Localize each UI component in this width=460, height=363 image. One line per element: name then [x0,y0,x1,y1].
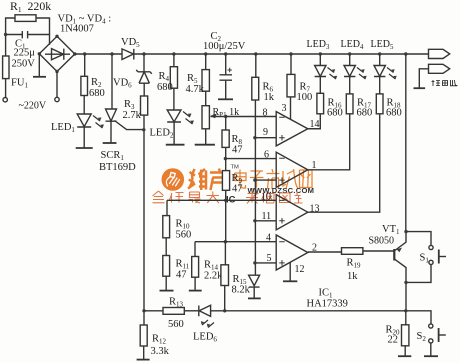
node R20 junction [404,309,407,312]
node pin6 junction [224,157,227,160]
wire C2 top lead [225,54,227,75]
svg-text:4: 4 [266,233,271,244]
svg-text:LED2: LED2 [150,128,174,140]
resistor R18 [376,94,383,114]
svg-text:R1 220k: R1 220k [10,0,51,14]
resistor R5 [202,70,209,92]
node LED3 column [319,52,322,55]
wire bottom bus right segment [225,311,431,324]
wire R4 top lead [173,54,175,67]
resistor R10 [163,216,170,238]
resistor R17 [346,94,353,114]
ground R11 [160,290,174,292]
wire R4 to LED2 [173,88,175,110]
svg-text:VT1: VT1 [382,224,400,236]
wire R16 to out14 [308,114,321,129]
LED D5 arrows [387,68,396,80]
diode VD7 reference clamp [249,275,260,298]
wire R14 top lead [194,242,196,257]
resistor R12 [140,325,147,346]
wire bridge AC bottom to terminal [56,72,58,98]
svg-text:560: 560 [176,230,192,241]
wire R8 top lead [225,117,227,131]
switch S2 [429,324,433,328]
wire R9 bottom [225,190,227,241]
op-amp U1b [276,152,308,187]
wire R17 to out1 [308,114,350,170]
resistor R14 [192,257,199,278]
wire R14 to ground [194,277,196,290]
svg-text:2.7k: 2.7k [123,110,142,121]
wire pin10 line [167,199,276,201]
svg-text:R13: R13 [169,297,184,309]
U1c minus plus [279,200,285,223]
wire VD6 cathode lead [143,54,145,72]
svg-text:250V: 250V [12,59,36,70]
svg-text:1k: 1k [347,271,358,282]
svg-text:S8050: S8050 [369,236,395,247]
LED D6 arrows [202,320,214,328]
U1b minus plus [279,158,285,183]
svg-text:6: 6 [264,150,269,161]
svg-text:680: 680 [386,108,402,119]
svg-text:560: 560 [168,319,184,330]
RP1 wiper arrow [210,114,217,119]
resistor R19 [342,248,363,255]
wire emitter to bottom bus [405,282,407,310]
wire top bus main segment [134,53,429,55]
wire pin11 line [255,220,276,222]
svg-text:S1: S1 [420,253,430,265]
node collector junction [404,230,407,233]
wire battery minus to ground [419,69,428,88]
svg-text:HA17339: HA17339 [307,299,348,310]
battery minus connector [429,64,450,73]
resistor R8 [222,130,229,147]
resistor R3 [141,96,148,115]
wire R18 to out13 [308,114,380,212]
svg-text:11: 11 [262,211,272,222]
LED D1 arrows [93,116,103,129]
wire bottom bus left segment [144,310,163,312]
node pin4 junction [224,240,227,243]
node SCR column [110,52,113,55]
svg-text:VD5: VD5 [121,37,140,49]
resistor R4 [170,67,177,89]
svg-text:8: 8 [263,108,268,119]
battery plus connector [429,49,450,58]
resistor R6 [252,77,259,100]
svg-text:LED4: LED4 [341,39,364,51]
svg-text:22: 22 [388,335,399,346]
node gate rail to bottom bus [142,309,145,312]
big brand char wei [188,169,207,190]
svg-text:680: 680 [357,108,373,119]
wire bridge minus to ground [38,54,40,77]
terminal circle AC live [3,98,7,102]
resistor R7 [287,74,295,97]
svg-text:LED5: LED5 [371,39,394,51]
LED D4 [344,66,355,94]
LED D2 arrows [183,112,193,125]
svg-text:SCR1: SCR1 [101,150,125,162]
LED D4 arrows [357,68,366,80]
ground SCR [103,142,117,144]
wire S2 bottom to ground [430,343,432,356]
wire bus R13 to LED6 [184,310,198,312]
wire R8 to R9 [225,147,227,170]
ground C2 [218,98,233,100]
wire reference rail [254,100,256,275]
svg-text:1k: 1k [264,92,275,103]
wire R20 to ground [404,346,406,356]
slogan quan qiu zui da [153,191,220,203]
svg-text:100μ/25V: 100μ/25V [203,41,246,52]
node emitter junction [404,281,407,284]
node VD6 column [142,52,145,55]
svg-text:LED3: LED3 [307,39,330,51]
resistor R2 [81,76,88,95]
wire LED4 top lead [349,54,351,66]
svg-text:TM: TM [231,165,240,171]
wire R19 to base [363,250,394,252]
wire pin12 ground lead [289,262,291,281]
wire R10 top lead [166,200,168,215]
slogan cai gou wang zhan [246,192,303,204]
op-amp U1c [276,195,308,230]
wire pin7 line [255,179,276,181]
LED D6 [199,305,225,316]
node LED4 column [348,52,351,55]
svg-text:47: 47 [232,184,243,195]
svg-text:9: 9 [263,127,268,138]
svg-text:BT169D: BT169D [99,162,136,173]
wire R12 top lead [143,311,145,325]
node R7 column [289,52,292,55]
wire R3 to gate node rail [143,115,145,311]
node R6 column [254,52,257,55]
U1d minus plus [279,242,285,266]
svg-text:FU1: FU1 [11,78,28,90]
ground pin12 [283,280,297,282]
wire FU1 to terminal [5,79,7,98]
svg-text:S2: S2 [417,331,427,343]
wire R5 to RP1 [205,91,207,106]
node R4 column [172,52,175,55]
svg-text:8.2k: 8.2k [232,285,251,296]
potentiometer RP1 [202,106,209,129]
svg-text:4.7k: 4.7k [186,84,205,95]
wire S1 bottom to emitter [406,265,431,283]
svg-text:VD6: VD6 [113,78,132,90]
node wiper R8 junction [224,115,227,118]
bridge corner dots [55,35,58,38]
svg-text:10: 10 [261,192,271,203]
SCR1 gate lead [115,121,144,130]
ground LED2 [166,144,185,146]
wire R11 to ground [165,276,167,290]
resistor R15 [221,265,229,286]
resistor R13 [163,308,184,315]
capacitor C2 [220,75,233,80]
wire R6 top lead [255,54,257,77]
wire top bus left segment [75,53,122,55]
svg-text:12: 12 [295,264,305,275]
fuse FU1 [3,56,9,79]
wire R15 bottom to bus [224,286,226,311]
wire C1 leads [6,35,50,45]
wire R7 top lead [290,54,292,74]
wire out2 to R19 [308,251,342,253]
wire pin6 line [225,158,276,160]
svg-text:47: 47 [176,270,187,281]
ground VD7 [248,297,261,299]
LED D2 [167,110,181,145]
resistor R1 [15,15,36,22]
ground battery minus [414,87,426,89]
svg-text:680: 680 [157,82,173,93]
WATERMARK [153,165,315,206]
node C2 column [224,52,227,55]
wire R1 right lead [36,18,50,35]
node R15 bottom junction [223,309,226,312]
logo disc [162,168,185,191]
wire LED3 top lead [319,54,321,66]
wire C2 bottom [225,81,227,100]
VT1 emitter arrow [397,248,403,253]
node R5 column [204,52,207,55]
node LED5 column [378,52,381,55]
wire R20 top lead [405,311,407,325]
resistor R16 [317,93,324,114]
svg-text:~220V: ~220V [19,101,47,112]
node pin10 junction [224,199,227,202]
svg-text:1N4007: 1N4007 [60,24,94,35]
op-amp U1a [276,112,308,146]
node right rail top [404,52,407,55]
svg-text:3.3k: 3.3k [151,346,170,357]
wire RP1 bottom to ground [205,129,207,145]
svg-text:3: 3 [282,103,287,114]
ground RP1 [195,144,215,146]
capacitor C1 [22,31,27,38]
wire R5 top lead [205,54,207,70]
ground R12 [137,359,150,361]
node pin7 tap [253,178,256,181]
svg-text:100: 100 [297,92,313,103]
resistor R9 [222,171,229,191]
wire R12 to ground [143,346,145,360]
switch S1 [429,245,433,249]
ground R20 [398,355,411,357]
svg-text:R12: R12 [152,334,167,346]
svg-text:LED1: LED1 [51,122,75,134]
wire wiper line pin8 [211,116,277,118]
svg-text:R19: R19 [347,258,362,270]
svg-text:LED6: LED6 [193,332,217,344]
node A junction dot [4,33,7,36]
LED D3 arrows [328,68,337,80]
svg-text:5: 5 [267,253,272,264]
node gate junction [142,128,145,131]
wire R2 to LED1 [83,96,85,115]
op-amp U1d [276,235,308,270]
ground R14 [189,290,202,292]
wire pin3 supply lead [290,97,292,120]
wire R15 top lead from pin4 node [224,242,226,265]
wire R2 top lead [84,54,86,76]
zener VD6 [136,70,151,96]
resistor R11 [163,256,170,277]
node pin5 tap [253,261,256,264]
diode VD5 [122,49,134,60]
wire SCR anode [111,54,113,109]
LED D3 [315,66,326,94]
node pin9 tap [253,136,256,139]
svg-text:680: 680 [327,108,343,119]
ground S2 [424,355,438,357]
thyristor SCR1 [106,109,117,143]
resistor R20 [402,325,409,346]
bridge rectifier VD1-VD4 diamond [39,36,75,71]
label jie dian chi [432,80,458,86]
wire pin5 line [255,262,276,264]
ground bridge [33,76,46,78]
svg-text:47: 47 [232,145,243,156]
U1a minus plus [279,117,285,140]
LED D1 [77,114,91,148]
LED D5 [374,66,385,94]
ground LED1 [76,147,93,149]
big brand char ku [210,169,229,191]
transistor VT1 [393,249,395,261]
wire pin4 line [195,241,276,243]
terminal circle AC neutral [55,97,59,101]
capacitor C2 polarity [228,68,232,72]
wire right rail to collector [405,54,407,232]
node R2 column [83,52,86,55]
svg-text:680: 680 [89,88,105,99]
wire LED5 top lead [379,54,381,66]
wire collector to S1 [406,232,431,246]
node pin11 tap [253,219,256,222]
bridge inner diode [45,49,70,60]
outlined char dian [235,169,313,189]
svg-text:225μ: 225μ [14,48,36,59]
wire pin9 line [255,137,276,139]
wire R10 to R11 [165,238,167,256]
wire R1 left lead and left rail [6,18,15,56]
